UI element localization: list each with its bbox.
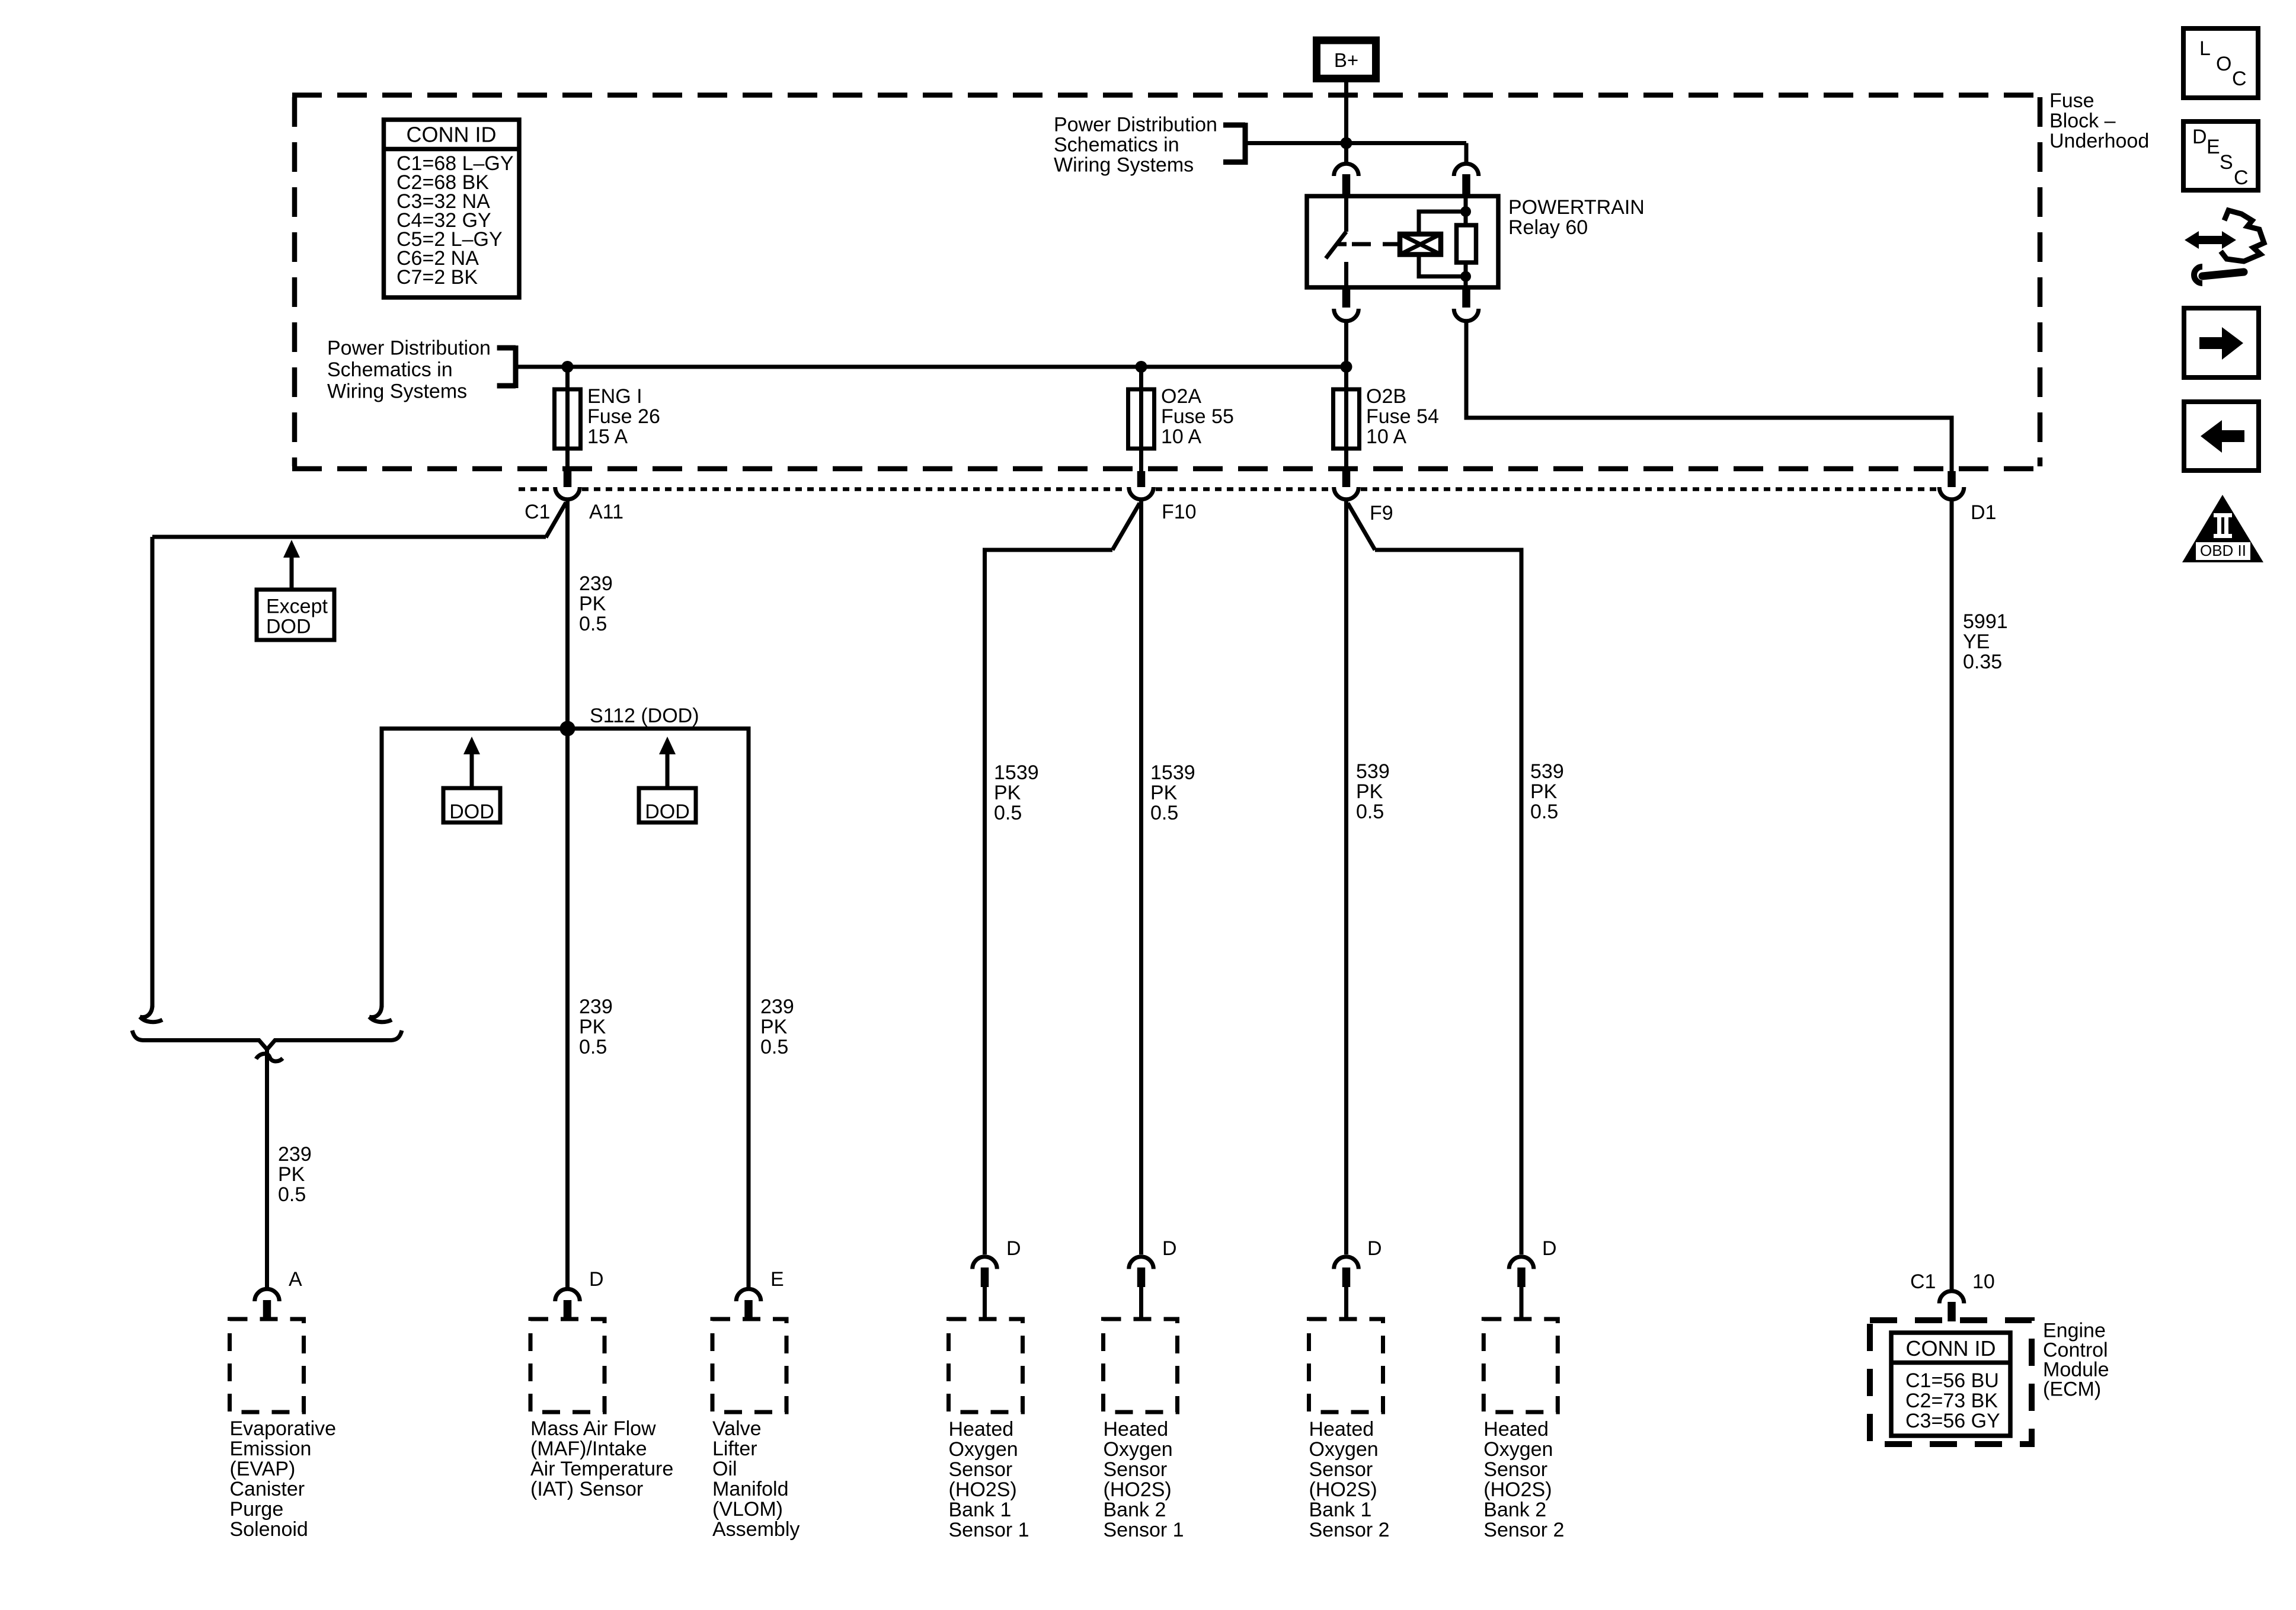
svg-text:C1: C1 <box>525 501 550 523</box>
svg-text:CONN ID: CONN ID <box>1906 1336 1996 1361</box>
svg-text:(IAT) Sensor: (IAT) Sensor <box>530 1478 643 1500</box>
svg-text:L: L <box>2199 37 2211 60</box>
svg-text:Heated: Heated <box>1309 1418 1374 1441</box>
svg-text:O2A: O2A <box>1161 385 1201 408</box>
svg-text:C2=73 BK: C2=73 BK <box>1905 1390 1998 1412</box>
svg-text:F10: F10 <box>1162 501 1197 523</box>
svg-text:PK: PK <box>1150 782 1178 804</box>
svg-text:A: A <box>289 1268 302 1291</box>
svg-text:Block –: Block – <box>2049 110 2116 132</box>
svg-text:Bank 1: Bank 1 <box>949 1499 1012 1521</box>
svg-text:Sensor 1: Sensor 1 <box>949 1519 1029 1541</box>
svg-text:C7=2 BK: C7=2 BK <box>396 266 478 289</box>
svg-text:O: O <box>2216 53 2231 75</box>
svg-text:15 A: 15 A <box>587 425 628 448</box>
svg-text:F9: F9 <box>1370 502 1393 524</box>
svg-text:0.5: 0.5 <box>579 613 607 635</box>
svg-text:OBD II: OBD II <box>2200 542 2246 559</box>
svg-text:S112 (DOD): S112 (DOD) <box>590 705 699 727</box>
svg-text:DOD: DOD <box>266 616 311 638</box>
svg-text:D: D <box>1542 1237 1557 1260</box>
svg-text:PK: PK <box>760 1016 788 1038</box>
svg-text:Sensor 2: Sensor 2 <box>1309 1519 1390 1541</box>
svg-text:Relay 60: Relay 60 <box>1508 216 1588 239</box>
svg-text:(HO2S): (HO2S) <box>1483 1478 1552 1501</box>
svg-text:Oxygen: Oxygen <box>949 1438 1018 1461</box>
svg-text:Manifold: Manifold <box>712 1478 789 1500</box>
svg-text:0.5: 0.5 <box>1356 801 1384 823</box>
svg-text:0.5: 0.5 <box>579 1036 607 1058</box>
svg-text:PK: PK <box>1356 780 1383 803</box>
svg-text:D: D <box>1367 1237 1382 1260</box>
svg-text:Air Temperature: Air Temperature <box>530 1458 673 1480</box>
svg-text:Lifter: Lifter <box>712 1438 757 1460</box>
svg-text:Oxygen: Oxygen <box>1483 1438 1553 1461</box>
svg-text:D1: D1 <box>1971 501 1996 524</box>
svg-text:C1: C1 <box>1910 1270 1936 1293</box>
svg-text:0.5: 0.5 <box>1150 802 1178 824</box>
svg-text:Bank 2: Bank 2 <box>1483 1499 1546 1521</box>
svg-text:PK: PK <box>994 782 1021 804</box>
svg-text:E: E <box>770 1268 784 1291</box>
svg-text:Assembly: Assembly <box>712 1518 800 1541</box>
svg-text:Canister: Canister <box>230 1478 305 1500</box>
svg-text:YE: YE <box>1963 630 1990 653</box>
svg-text:1539: 1539 <box>1150 761 1195 784</box>
svg-text:Except: Except <box>266 596 328 618</box>
svg-text:Oxygen: Oxygen <box>1309 1438 1379 1461</box>
svg-text:(HO2S): (HO2S) <box>1104 1478 1172 1501</box>
svg-text:D: D <box>1006 1237 1021 1260</box>
svg-text:1539: 1539 <box>994 761 1039 784</box>
svg-text:C: C <box>2234 167 2249 189</box>
svg-text:Sensor 2: Sensor 2 <box>1483 1519 1564 1541</box>
svg-text:10 A: 10 A <box>1366 425 1406 448</box>
svg-text:Oil: Oil <box>712 1458 737 1480</box>
svg-text:Sensor 1: Sensor 1 <box>1104 1519 1184 1541</box>
svg-text:Underhood: Underhood <box>2049 130 2149 152</box>
svg-text:Sensor: Sensor <box>1104 1458 1168 1481</box>
svg-text:A11: A11 <box>589 501 623 523</box>
svg-text:5991: 5991 <box>1963 610 2008 633</box>
svg-text:Bank 1: Bank 1 <box>1309 1499 1372 1521</box>
svg-text:Heated: Heated <box>1104 1418 1169 1441</box>
svg-text:DOD: DOD <box>449 801 494 823</box>
svg-text:PK: PK <box>278 1163 305 1186</box>
svg-text:0.5: 0.5 <box>994 802 1022 824</box>
svg-text:Fuse 26: Fuse 26 <box>587 405 660 428</box>
svg-text:(HO2S): (HO2S) <box>1309 1478 1377 1501</box>
svg-text:0.5: 0.5 <box>278 1183 306 1206</box>
svg-text:O2B: O2B <box>1366 385 1406 408</box>
svg-text:Schematics in: Schematics in <box>1054 134 1179 156</box>
svg-text:PK: PK <box>1530 780 1558 803</box>
svg-text:Mass Air Flow: Mass Air Flow <box>530 1417 656 1440</box>
svg-text:PK: PK <box>579 1016 606 1038</box>
svg-text:Heated: Heated <box>1483 1418 1549 1441</box>
svg-text:D: D <box>2192 126 2207 148</box>
svg-text:S: S <box>2220 151 2233 174</box>
svg-text:Schematics in: Schematics in <box>327 359 453 381</box>
svg-text:Wiring Systems: Wiring Systems <box>327 380 467 403</box>
svg-text:Sensor: Sensor <box>1483 1458 1547 1481</box>
svg-text:239: 239 <box>278 1143 312 1166</box>
svg-text:Purge: Purge <box>230 1498 284 1521</box>
svg-text:(HO2S): (HO2S) <box>949 1478 1017 1501</box>
svg-text:(ECM): (ECM) <box>2043 1378 2101 1401</box>
svg-text:239: 239 <box>579 996 613 1018</box>
svg-text:DOD: DOD <box>645 801 690 823</box>
svg-text:CONN ID: CONN ID <box>407 123 497 147</box>
svg-text:0.35: 0.35 <box>1963 651 2002 673</box>
svg-text:PK: PK <box>579 593 606 615</box>
svg-text:Evaporative: Evaporative <box>230 1417 337 1440</box>
svg-text:10: 10 <box>1972 1270 1995 1293</box>
svg-text:Power Distribution: Power Distribution <box>1054 114 1217 136</box>
svg-text:Power Distribution: Power Distribution <box>327 337 491 360</box>
svg-text:0.5: 0.5 <box>760 1036 788 1058</box>
svg-text:ENG I: ENG I <box>587 385 642 408</box>
svg-text:POWERTRAIN: POWERTRAIN <box>1508 196 1645 219</box>
svg-text:Valve: Valve <box>712 1417 762 1440</box>
svg-text:Bank 2: Bank 2 <box>1104 1499 1166 1521</box>
svg-text:Sensor: Sensor <box>949 1458 1013 1481</box>
svg-text:10 A: 10 A <box>1161 425 1201 448</box>
svg-text:Oxygen: Oxygen <box>1104 1438 1173 1461</box>
svg-text:(MAF)/Intake: (MAF)/Intake <box>530 1438 647 1460</box>
svg-text:E: E <box>2207 136 2220 158</box>
svg-text:Fuse 54: Fuse 54 <box>1366 405 1439 428</box>
svg-text:Sensor: Sensor <box>1309 1458 1373 1481</box>
svg-text:Wiring Systems: Wiring Systems <box>1054 154 1194 177</box>
svg-text:C3=56 GY: C3=56 GY <box>1905 1410 2000 1432</box>
svg-text:0.5: 0.5 <box>1530 801 1558 823</box>
svg-text:B+: B+ <box>1334 49 1358 71</box>
svg-text:539: 539 <box>1356 760 1390 783</box>
svg-text:D: D <box>589 1268 604 1291</box>
svg-text:(VLOM): (VLOM) <box>712 1498 783 1521</box>
svg-text:C: C <box>2232 68 2247 90</box>
svg-text:C1=56 BU: C1=56 BU <box>1905 1369 1999 1392</box>
svg-text:239: 239 <box>579 572 613 595</box>
svg-text:Solenoid: Solenoid <box>230 1518 308 1541</box>
svg-text:(EVAP): (EVAP) <box>230 1458 296 1480</box>
svg-text:239: 239 <box>760 996 794 1018</box>
svg-text:D: D <box>1162 1237 1177 1260</box>
svg-text:Heated: Heated <box>949 1418 1014 1441</box>
svg-text:Fuse 55: Fuse 55 <box>1161 405 1234 428</box>
svg-text:Fuse: Fuse <box>2049 89 2094 112</box>
svg-text:Emission: Emission <box>230 1438 312 1460</box>
svg-text:539: 539 <box>1530 760 1564 783</box>
